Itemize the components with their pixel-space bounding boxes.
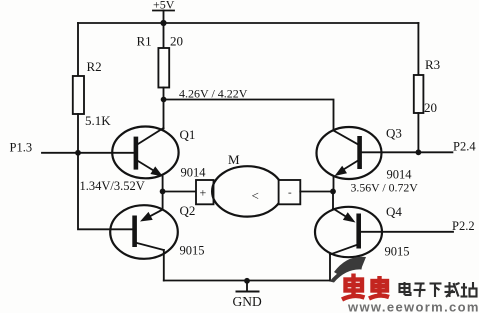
resistor R3 xyxy=(414,57,440,115)
svg-text:R3: R3 xyxy=(425,57,440,72)
wire motor right terminal to junction xyxy=(300,191,333,193)
motor M left terminal xyxy=(196,180,214,204)
svg-text:4.26V / 4.22V: 4.26V / 4.22V xyxy=(179,87,248,101)
wire Q4 collector drop xyxy=(329,255,331,281)
wire R1 top lead xyxy=(163,23,165,48)
power +5V xyxy=(153,0,175,23)
wire R1 bottom lead xyxy=(163,88,165,100)
wire Q4 emitter drop xyxy=(332,192,334,209)
svg-text:20: 20 xyxy=(424,100,437,115)
wire Q3 base lead xyxy=(362,151,419,153)
wire R2 junction down to Q2 base xyxy=(78,153,132,230)
svg-text:9015: 9015 xyxy=(385,245,410,259)
svg-text:1.34V/3.52V: 1.34V/3.52V xyxy=(80,179,145,193)
resistor R1 xyxy=(137,34,184,88)
svg-text:Q2: Q2 xyxy=(180,203,196,218)
watermark 电子下载站 text xyxy=(400,282,477,297)
svg-text:R2: R2 xyxy=(87,59,102,74)
node Q3/Q4 emitter junction xyxy=(330,189,336,195)
node R1 bottom junction xyxy=(161,97,167,103)
svg-text:20: 20 xyxy=(170,34,183,49)
transistor Q4 xyxy=(315,204,410,259)
svg-text:<: < xyxy=(252,188,259,203)
svg-text:3.56V / 0.72V: 3.56V / 0.72V xyxy=(351,181,419,195)
wire Q2 emitter drop xyxy=(162,192,164,210)
svg-text:M: M xyxy=(228,152,240,167)
node Q1/Q2 emitter junction xyxy=(160,189,166,195)
wire junction to motor left terminal xyxy=(163,191,196,193)
transistor Q2 xyxy=(110,203,204,259)
wire Q2 collector drop xyxy=(163,250,165,281)
svg-text:P2.2: P2.2 xyxy=(452,219,475,233)
svg-text:P2.4: P2.4 xyxy=(453,140,476,154)
svg-text:P1.3: P1.3 xyxy=(10,141,33,155)
wire bottom rail xyxy=(164,280,330,282)
wire P1.3 lead to Q1 base xyxy=(42,152,134,154)
svg-text:GND: GND xyxy=(233,294,262,309)
svg-text:Q4: Q4 xyxy=(386,204,402,219)
wire R2 top lead xyxy=(77,23,79,76)
wire Q1 emitter drop xyxy=(162,177,164,192)
svg-text:R1: R1 xyxy=(137,34,152,49)
motor M xyxy=(212,152,283,217)
svg-text:9014: 9014 xyxy=(181,166,207,180)
resistor R2 xyxy=(73,59,111,128)
motor M right terminal xyxy=(279,180,301,204)
node P1.3 / R2 junction xyxy=(75,150,81,156)
wire Q3 emitter drop xyxy=(333,177,335,192)
svg-text:Q1: Q1 xyxy=(180,127,196,142)
wire P2.4 lead xyxy=(418,151,452,153)
transistor Q1 xyxy=(112,126,206,179)
node GND junction xyxy=(244,278,250,284)
ground xyxy=(233,281,262,309)
wire R3 top lead xyxy=(417,23,419,75)
svg-text:9015: 9015 xyxy=(180,244,205,258)
wire collector rail to Q3 xyxy=(164,100,334,131)
wire R2 bottom lead xyxy=(77,114,79,153)
svg-text:-: - xyxy=(288,187,292,199)
node top rail / R1 junction xyxy=(160,20,166,26)
watermark 虫虫 characters xyxy=(342,274,389,300)
svg-text:www.eeworm.com: www.eeworm.com xyxy=(347,300,479,313)
svg-text:5.1K: 5.1K xyxy=(85,113,111,128)
wire Q4 base lead to P2.2 xyxy=(361,231,453,233)
wire R3 bottom lead xyxy=(417,113,419,152)
transistor Q3 xyxy=(317,126,413,182)
svg-text:9014: 9014 xyxy=(387,168,413,182)
svg-text:Q3: Q3 xyxy=(386,126,402,141)
node P2.4 junction xyxy=(416,149,422,155)
watermark swoosh xyxy=(330,257,367,283)
svg-text:+: + xyxy=(200,186,207,200)
wire Q1 collector drop xyxy=(163,100,165,129)
wire top rail xyxy=(78,22,418,24)
